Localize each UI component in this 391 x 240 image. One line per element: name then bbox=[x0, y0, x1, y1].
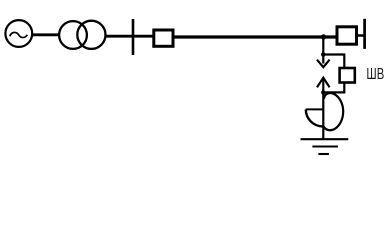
movable contact arrow down bbox=[317, 60, 330, 67]
branch wire ShV box to node C bbox=[323, 83, 344, 93]
wire down to ground bbox=[322, 92, 324, 139]
breaker box Q1 bbox=[154, 30, 173, 46]
ShV box bbox=[340, 68, 355, 83]
movable contact arrow up bbox=[317, 78, 330, 93]
terminal bar bbox=[363, 19, 366, 49]
transformer T1 secondary winding bbox=[77, 21, 105, 49]
busbar tick bbox=[132, 19, 135, 55]
cable socket cup bbox=[306, 109, 324, 126]
reactor loop bbox=[324, 93, 343, 130]
junction node B bbox=[321, 52, 326, 57]
branch wire node B to ShV box bbox=[323, 55, 344, 68]
wire box to terminal bar bbox=[358, 34, 365, 37]
junction node C bbox=[321, 90, 325, 94]
wire source to transformer bbox=[32, 33, 60, 36]
ground bbox=[301, 139, 349, 154]
wire transformer to breaker bbox=[106, 35, 153, 38]
transformer T1 primary winding bbox=[59, 21, 87, 49]
cable box bbox=[337, 27, 357, 44]
svg-text:ШВ: ШВ bbox=[366, 66, 384, 83]
vertical feeder wire from node A bbox=[322, 37, 324, 64]
AC source G1 bbox=[5, 20, 32, 47]
main horizontal wire bbox=[175, 35, 337, 38]
junction node A bbox=[321, 34, 326, 39]
